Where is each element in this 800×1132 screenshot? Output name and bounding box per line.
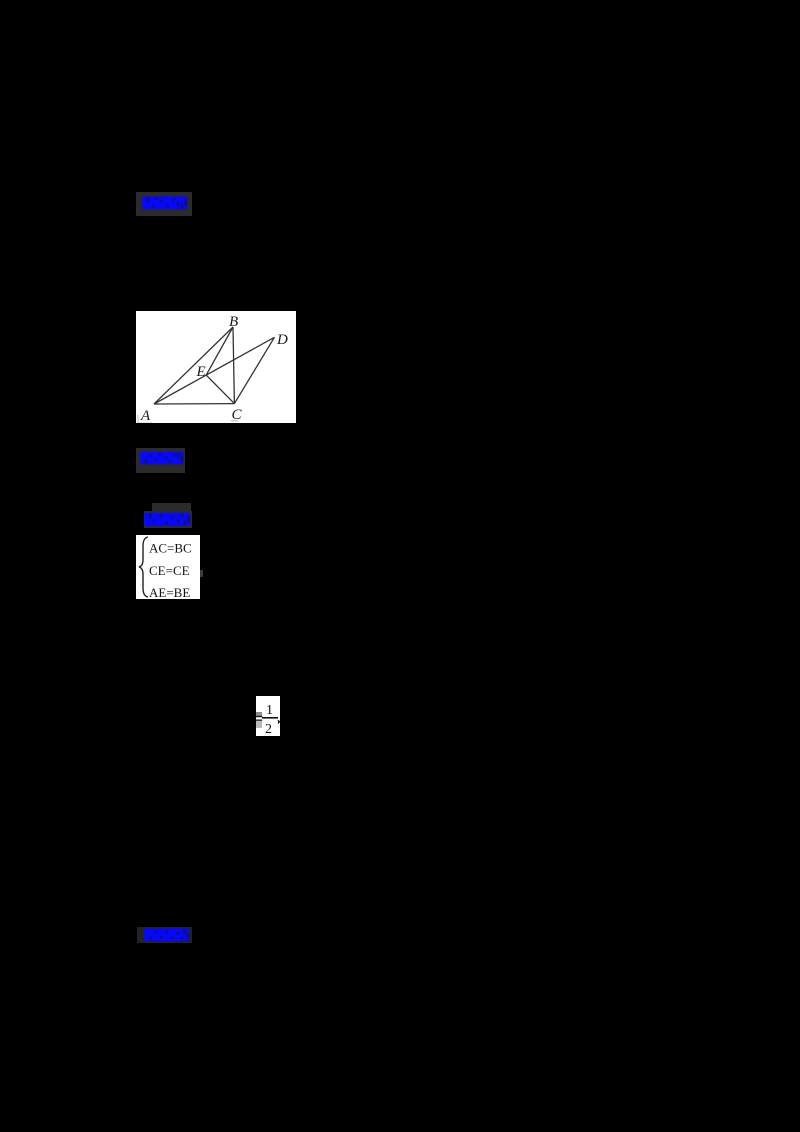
equals sign xyxy=(255,716,262,717)
fraction bar xyxy=(262,717,278,719)
node label-fenxi : blue CJK tag over dark selection box xyxy=(136,192,192,216)
svg-text:A: A xyxy=(140,408,151,423)
label-jieda : blue CJK tag xyxy=(136,448,185,473)
label-dianbo : blue CJK tag xyxy=(144,511,192,528)
wire B-C xyxy=(233,327,234,404)
gray artifacts left xyxy=(256,712,262,717)
svg-text:1: 1 xyxy=(266,703,273,718)
faint comma after equation xyxy=(200,570,203,577)
wire A-B xyxy=(154,327,233,404)
label-dianping : blue CJK tag xyxy=(137,927,192,943)
svg-text:E: E xyxy=(196,364,206,380)
fraction =1/2 block xyxy=(256,696,280,736)
svg-text:D: D xyxy=(276,332,288,348)
wire A-C xyxy=(154,403,234,405)
selection tail above dianbo xyxy=(152,503,191,511)
equation system box xyxy=(136,535,200,599)
artifact under A xyxy=(138,415,152,423)
brace left xyxy=(139,537,148,597)
figure box: triangle diagram xyxy=(136,311,296,423)
svg-text:B: B xyxy=(229,314,238,330)
wire C-D xyxy=(234,337,274,403)
svg-text:2: 2 xyxy=(265,722,272,736)
svg-text:AC=BC: AC=BC xyxy=(149,541,192,556)
artifact under C xyxy=(231,420,238,422)
svg-text:AE=BE: AE=BE xyxy=(149,585,190,599)
wire B-E xyxy=(206,327,233,375)
wire A-D through E xyxy=(154,337,274,404)
comma artifact right xyxy=(278,720,281,725)
wire E-C xyxy=(206,375,234,404)
svg-text:CE=CE: CE=CE xyxy=(149,563,190,578)
